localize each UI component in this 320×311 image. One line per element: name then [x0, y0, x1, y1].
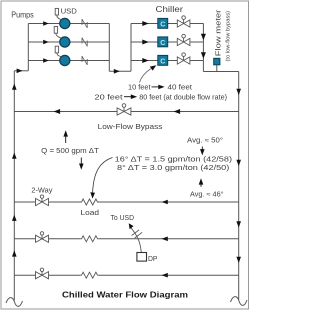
wire pump branch 3	[28, 60, 59, 62]
pump P3	[60, 55, 70, 65]
flow arrow left riser 2	[12, 153, 17, 159]
svg-text:C: C	[160, 40, 165, 47]
wire chiller return header	[202, 24, 204, 72]
svg-text:DP: DP	[148, 256, 158, 263]
chiller 2 box	[158, 37, 168, 47]
wire pump 2 outlet	[70, 41, 109, 43]
bypass valve	[117, 104, 131, 115]
flow arrow load branch 1	[162, 200, 168, 205]
chiller 1 box	[158, 18, 168, 28]
annotation arrow down below Avg 50	[201, 147, 203, 151]
svg-text:10 feet: 10 feet	[128, 85, 151, 92]
svg-text:Chiller: Chiller	[156, 4, 184, 14]
flow arrow into pump manifold	[17, 69, 23, 74]
wire pump discharge header	[108, 24, 110, 72]
leader arrow 10 feet	[140, 69, 152, 83]
isolation valve chiller 1	[177, 16, 190, 27]
wire chiller branch 2	[131, 41, 158, 43]
wire chiller branch 3	[131, 60, 158, 62]
2-way valve load 1	[36, 195, 49, 206]
flow arrow return header upper	[201, 34, 206, 41]
DP signal break slashes	[132, 230, 143, 238]
flow arrow return header lower	[201, 52, 206, 59]
annotation arrow down at Q label	[80, 158, 82, 165]
VFD drive box pump 3	[55, 46, 61, 56]
flow meter stem	[216, 65, 218, 72]
annotation arrow up above Avg 46	[200, 182, 202, 187]
flow arrow pump branch 2	[43, 40, 49, 44]
flow arrow right riser 1	[236, 89, 241, 95]
svg-text:Load: Load	[81, 210, 100, 217]
svg-text:Chilled Water Flow Diagram: Chilled Water Flow Diagram	[62, 290, 188, 300]
chiller 3 box	[158, 55, 168, 65]
svg-text:8° ΔT = 3.0 gpm/ton (42/50): 8° ΔT = 3.0 gpm/ton (42/50)	[117, 164, 229, 172]
DP sensor box	[137, 253, 147, 262]
pump P2	[60, 37, 70, 47]
flow arrow left riser 4	[12, 250, 17, 256]
load coil 1	[80, 199, 99, 205]
wire pump branch 1	[28, 23, 59, 25]
wire load branch 2 right	[99, 238, 239, 240]
load coil 2	[80, 236, 99, 242]
flow arrow discharge jog	[114, 69, 120, 74]
flow meter	[214, 58, 220, 65]
svg-text:20 feet: 20 feet	[95, 94, 123, 101]
wire left return riser	[13, 71, 15, 301]
pipe break squiggle right	[231, 297, 248, 306]
svg-text:Avg. ≈ 50°: Avg. ≈ 50°	[187, 136, 223, 144]
wire pump suction manifold	[27, 24, 29, 71]
VFD drive box pump 2	[54, 27, 61, 39]
wire discharge-to-supply jog	[109, 70, 131, 72]
flow arrow chiller branch 2	[142, 40, 149, 45]
check valve pump 1	[82, 19, 87, 28]
wire suction jog	[14, 70, 28, 72]
annotation arrow up at Q label	[65, 136, 67, 143]
wire pump 3 outlet	[70, 60, 109, 62]
svg-text:40 feet: 40 feet	[168, 85, 193, 92]
svg-text:Low-Flow Bypass: Low-Flow Bypass	[98, 122, 163, 131]
isolation valve chiller 2	[177, 34, 190, 45]
flow arrow left riser 1	[12, 84, 17, 90]
flow arrow load branch 2	[162, 237, 168, 242]
wire load branch 2	[14, 238, 80, 240]
load coil 3	[80, 272, 99, 278]
check valve pump 2	[82, 38, 87, 47]
flow arrow chiller branch 3	[142, 58, 149, 63]
2-way valve load 2	[36, 232, 49, 243]
check valve pump 3	[82, 56, 87, 65]
wire load branch 3 right	[99, 274, 239, 276]
wire low-flow bypass line	[14, 111, 238, 113]
svg-text:Avg. ≈ 46°: Avg. ≈ 46°	[190, 190, 224, 198]
wire chiller supply header	[130, 24, 132, 72]
wire right supply riser	[238, 72, 240, 300]
flow arrow pump branch 1	[43, 21, 49, 25]
annotation arc 16-deg to load 1	[93, 158, 113, 193]
wire chiller 3 outlet	[168, 60, 204, 62]
wire chiller 2 outlet	[168, 41, 204, 43]
svg-text:(to low-flow bypass): (to low-flow bypass)	[226, 11, 232, 62]
svg-text:C: C	[160, 58, 165, 65]
svg-text:Flow meter: Flow meter	[216, 9, 223, 56]
wire return jog	[203, 71, 238, 73]
flow arrow right riser 4	[236, 257, 241, 263]
wire chiller 1 outlet	[168, 23, 204, 25]
VFD drive box pump 1	[55, 8, 61, 19]
svg-text:C: C	[160, 21, 165, 28]
flow arrow right riser 3	[236, 221, 241, 227]
pipe break squiggle left	[6, 298, 23, 307]
flow arrow left riser 3	[12, 215, 17, 221]
wire chiller branch 1	[131, 23, 158, 25]
wire pump 1 outlet	[70, 23, 109, 25]
svg-text:16° ΔT = 1.5 gpm/ton (42/58): 16° ΔT = 1.5 gpm/ton (42/58)	[115, 155, 232, 163]
flow arrow right riser 2	[236, 160, 241, 166]
wire load branch 3	[14, 274, 80, 276]
svg-text:Q = 500 gpm ΔT: Q = 500 gpm ΔT	[41, 146, 99, 155]
svg-text:2-Way: 2-Way	[31, 188, 53, 195]
flow arrow load branch 3	[162, 273, 168, 278]
wire load branch 1 right	[99, 201, 239, 203]
svg-text:80 feet (at double flow rate): 80 feet (at double flow rate)	[139, 94, 227, 101]
wire pump branch 2	[28, 41, 59, 43]
flow arrow bypass right	[174, 109, 181, 114]
svg-text:Pumps: Pumps	[11, 9, 34, 19]
svg-text:USD: USD	[61, 6, 77, 15]
flow arrow bypass left	[54, 109, 61, 114]
flow arrow pump branch 3	[43, 58, 49, 62]
svg-text:To USD: To USD	[111, 215, 135, 222]
isolation valve chiller 3	[177, 53, 190, 64]
2-way valve load 3	[36, 268, 49, 279]
DP sensor signal line	[130, 227, 141, 252]
wire load branch 1	[14, 201, 80, 203]
pump P1	[60, 18, 70, 28]
flow arrow chiller branch 1	[142, 21, 149, 26]
